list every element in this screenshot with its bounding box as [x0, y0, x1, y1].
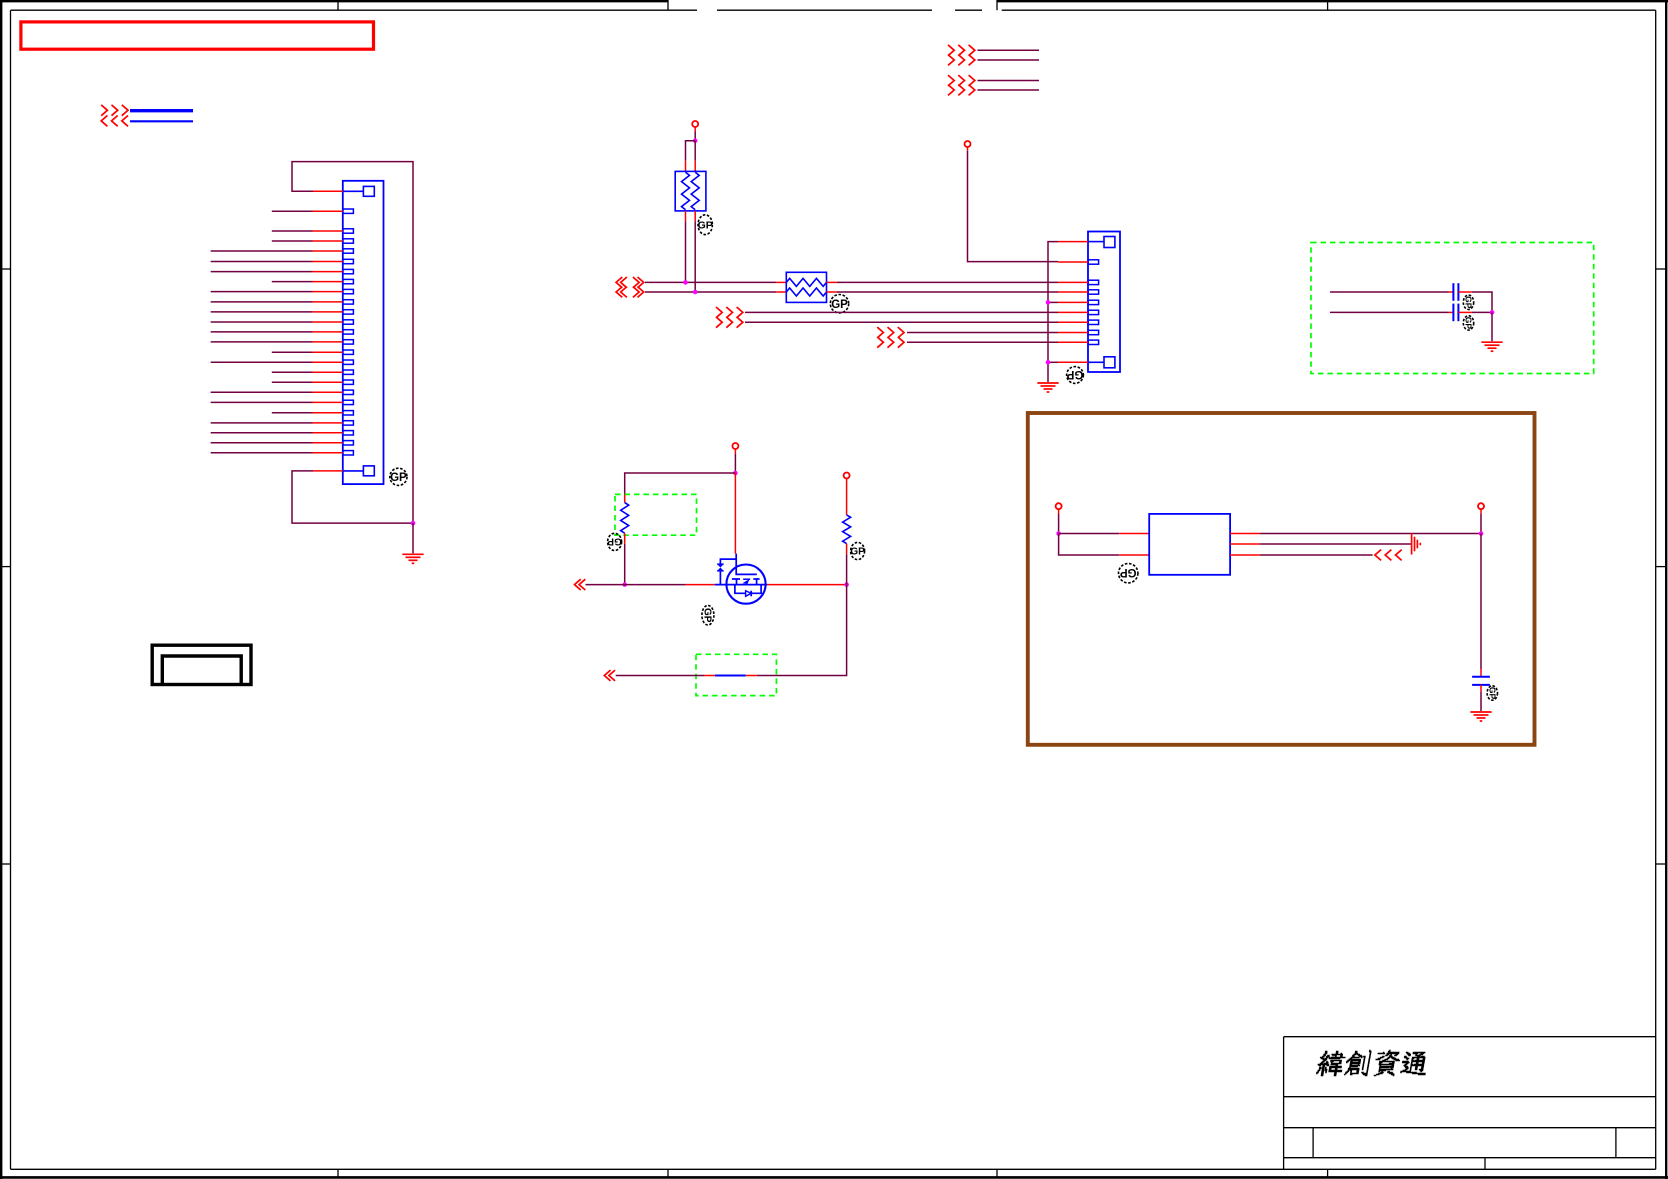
GP mark RP1 [698, 215, 713, 235]
off-page connector OP1 [101, 105, 128, 126]
pin stub J1 y=291.6 [343, 289, 354, 293]
chassis ground (right) [1412, 533, 1421, 554]
wire [1058, 509, 1060, 514]
wire [686, 141, 696, 161]
pin stub J1 y=392.3 [343, 390, 354, 394]
pin stub J1 y=311.9 [343, 310, 354, 314]
pin lead [313, 422, 343, 424]
svg-text:GP: GP [390, 472, 407, 484]
wire [1480, 514, 1482, 534]
pin stub J2 y=262.0 [1088, 260, 1099, 264]
off-page connector OP8 [604, 670, 615, 681]
wire [694, 141, 696, 161]
ground rail wire [1048, 242, 1058, 382]
pin lead [313, 250, 343, 252]
wire [1491, 312, 1493, 341]
pin lead [624, 494, 626, 502]
power terminal V1 [692, 121, 698, 127]
wire [1048, 361, 1058, 363]
wire [837, 291, 1058, 293]
capacitor C2 [1453, 304, 1458, 322]
wire [1059, 533, 1120, 535]
wire [211, 291, 313, 293]
wire [1058, 514, 1060, 534]
pin lead [1449, 311, 1454, 313]
pin lead [1449, 291, 1454, 293]
pin stub J1 y=301.9 [343, 300, 354, 304]
GP mark R1 [607, 533, 622, 550]
pin stub J1 y=211.2 [343, 209, 354, 213]
connector J2 [1088, 232, 1120, 373]
pin lead [313, 281, 343, 283]
wire [624, 544, 626, 585]
pin 26 lead [313, 470, 343, 472]
wire [211, 341, 313, 343]
ground [1037, 383, 1058, 392]
pin stub J1 y=402.4 [343, 400, 354, 404]
DNI box L1 [696, 654, 776, 695]
junction [683, 280, 688, 285]
pin lead [313, 311, 343, 313]
pin lead [313, 210, 343, 212]
wire (to lower branch) [757, 585, 847, 676]
wire [272, 240, 313, 242]
GP mark C3 [1487, 686, 1497, 700]
junction [411, 521, 416, 526]
pin lead [313, 371, 343, 373]
pin lead [313, 331, 343, 333]
pin stub J2 y=302.4 [1088, 300, 1099, 304]
wire [907, 341, 1058, 343]
pin lead [313, 381, 343, 383]
wire [734, 449, 736, 454]
wire [1480, 534, 1482, 670]
wire [211, 432, 313, 434]
wire [272, 351, 313, 353]
capacitor C1 [1453, 283, 1458, 301]
pin lead [313, 240, 343, 242]
pin stub J2 y=292.0 [1088, 290, 1099, 294]
wire [1048, 301, 1058, 303]
power terminal V2 [965, 141, 971, 147]
pin stub J2 y=332.5 [1088, 330, 1099, 334]
pin lead [313, 301, 343, 303]
pin lead [313, 412, 343, 414]
wire [978, 89, 1040, 91]
off-page connector OP5 [948, 45, 975, 66]
pin 1 lead [313, 190, 343, 192]
pin stub J1 y=382.2 [343, 380, 354, 384]
svg-text:GP: GP [1463, 317, 1473, 330]
title block [1284, 1037, 1656, 1170]
junction [844, 582, 849, 587]
GP mark R2 [850, 542, 865, 559]
off-page connector OP6 [948, 75, 975, 95]
pin stub J1 y=442.8 [343, 441, 354, 445]
wire (gate) [586, 584, 686, 586]
pin lead [776, 281, 786, 283]
pin stub J2 y=322.3 [1088, 320, 1099, 324]
GP mark C2 [1463, 316, 1473, 330]
ground [1481, 342, 1502, 351]
pin lead [1058, 332, 1088, 334]
pin 1 lead [1058, 241, 1088, 243]
resistor pack RP2 [786, 272, 826, 302]
pin stub J1 y=372.2 [343, 370, 354, 374]
wire [211, 261, 313, 263]
pin lead [624, 533, 626, 544]
pin stub J2 y=312.4 [1088, 310, 1099, 314]
resistor pack RP1 [675, 171, 706, 211]
wire (branch left) [625, 473, 736, 494]
svg-text:GP: GP [1487, 687, 1497, 700]
pin stub J1 y=412.8 [343, 411, 354, 415]
GP mark J1 [390, 468, 407, 485]
module U1 [1149, 514, 1230, 575]
GP mark J2 [1066, 367, 1083, 384]
pin lead [1458, 291, 1472, 293]
pin lead [827, 281, 838, 283]
junction [1046, 300, 1051, 305]
pin stub J1 y=251.0 [343, 249, 354, 253]
svg-text:GP: GP [1120, 566, 1137, 578]
pin stub J1 y=261.5 [343, 259, 354, 263]
pin lead [1058, 291, 1088, 293]
svg-text:GP: GP [831, 299, 848, 311]
pin lead [313, 452, 343, 454]
wire [272, 230, 313, 232]
svg-text:GP: GP [698, 219, 713, 231]
GP mark U1 [1119, 564, 1138, 583]
capacitor C3 [1472, 677, 1490, 685]
junction [693, 138, 698, 143]
pin lead [313, 230, 343, 232]
svg-text:GP: GP [1463, 296, 1473, 309]
off-page connector OP9 [1375, 550, 1402, 561]
pin lead [704, 675, 715, 677]
pin lead [313, 391, 343, 393]
power terminal V5 [1056, 503, 1062, 509]
pin lead [313, 341, 343, 343]
off-page connector OP2 [616, 277, 644, 297]
pin stub J2 y=282.4 [1088, 280, 1099, 284]
junction [1046, 360, 1051, 365]
power terminal V3 [732, 443, 738, 449]
pin lead [1058, 341, 1088, 343]
pin lead [1058, 321, 1088, 323]
pin lead [1058, 281, 1088, 283]
pin lead [313, 291, 343, 293]
bus segment [130, 109, 193, 112]
pin lead [1119, 533, 1149, 535]
wire [211, 442, 313, 444]
wire [272, 210, 313, 212]
wire [211, 361, 313, 363]
pin lead [313, 442, 343, 444]
junction [622, 582, 627, 587]
svg-text:GP: GP [701, 608, 712, 623]
pin stub J1 y=271.6 [343, 269, 354, 273]
wire [1472, 311, 1492, 313]
pin stub J1 y=352.2 [343, 350, 354, 354]
wire [907, 332, 1058, 334]
wire (bus1) [645, 281, 776, 283]
wire [694, 127, 696, 132]
wire [1059, 534, 1120, 556]
wire (pin1 to ground rail) [292, 162, 413, 523]
pin stub J1 y=452.8 [343, 451, 354, 455]
pin lead [694, 211, 696, 222]
wire [734, 454, 736, 473]
pin lead [313, 261, 343, 263]
pin lead [1230, 533, 1260, 535]
wire (drain riser) [734, 473, 736, 554]
junction [1056, 531, 1061, 536]
pin lead [685, 211, 687, 222]
wire [978, 49, 1040, 51]
off-page connector OP7 [575, 579, 586, 590]
ground [1470, 712, 1491, 721]
wire [1330, 291, 1449, 293]
wire [745, 311, 1058, 313]
power terminal V4 [844, 473, 850, 479]
DNI box R1 [615, 494, 697, 535]
wire (source) [767, 584, 847, 586]
wire [694, 221, 696, 292]
svg-text:GP: GP [607, 535, 622, 546]
wire [211, 452, 313, 454]
revision box [21, 22, 374, 49]
wire [616, 675, 704, 677]
resistor R2 [843, 515, 851, 544]
wire [1480, 509, 1482, 514]
wire (bus2) [645, 291, 776, 293]
pin stub J1 y=422.9 [343, 421, 354, 425]
pin lead [694, 161, 696, 172]
wire [967, 147, 969, 151]
pin stub J1 y=432.8 [343, 431, 354, 435]
wire [272, 381, 313, 383]
wire [837, 281, 1058, 283]
off-page connector OP4 [877, 327, 904, 348]
pin stub J1 y=241.0 [343, 239, 354, 243]
pin lead [1119, 554, 1149, 556]
GP mark Q1 [701, 605, 714, 625]
wire [211, 250, 313, 252]
pin lead [1230, 543, 1260, 545]
wire [272, 412, 313, 414]
junction [1479, 531, 1484, 536]
pin lead [313, 401, 343, 403]
wire [745, 321, 1058, 323]
wire [1260, 543, 1411, 545]
pin lead [846, 544, 848, 555]
pin lead [313, 432, 343, 434]
wire [1472, 292, 1492, 312]
wire [1260, 554, 1373, 556]
pin lead [313, 351, 343, 353]
pin stub J1 y=341.9 [343, 340, 354, 344]
wire [211, 422, 313, 424]
wire [211, 301, 313, 303]
svg-text:GP: GP [850, 547, 865, 558]
pin lead [1480, 669, 1482, 677]
junction [693, 290, 698, 295]
pin lead [1480, 685, 1482, 692]
GP mark RP2 [830, 295, 848, 313]
pin stub J1 y=231.0 [343, 229, 354, 233]
wire [1260, 533, 1481, 535]
transistor Q1 (power MOSFET) [715, 554, 767, 604]
pin stub J1 y=362.2 [343, 360, 354, 364]
wire [130, 120, 193, 122]
junction [733, 471, 738, 476]
ground [402, 554, 423, 563]
wire [694, 132, 696, 141]
wire [211, 321, 313, 323]
wire [272, 371, 313, 373]
wire [1480, 692, 1482, 711]
wire [211, 391, 313, 393]
pin lead [746, 675, 757, 677]
wire [846, 554, 848, 584]
pin lead [1058, 311, 1088, 313]
title text (company logotype) [1316, 1050, 1425, 1076]
wire stub to ground [412, 523, 414, 553]
wire [211, 331, 313, 333]
wire (pin26 to ground rail) [292, 471, 413, 523]
wire [968, 151, 1059, 262]
wire [1330, 311, 1449, 313]
pin stub J1 y=322.0 [343, 320, 354, 324]
wire [685, 221, 687, 282]
junction [1490, 310, 1495, 315]
bracket symbol [152, 645, 251, 684]
wire [978, 80, 1040, 82]
pin lead [846, 479, 848, 515]
connector J1 [343, 181, 384, 484]
pin 10 lead [1058, 361, 1088, 363]
pin lead [685, 161, 687, 172]
pin lead [313, 361, 343, 363]
off-page connector OP3 [716, 307, 743, 328]
DNI group box [1311, 243, 1594, 374]
pin stub J1 y=331.9 [343, 330, 354, 334]
pin lead [313, 321, 343, 323]
wire [211, 311, 313, 313]
wire [686, 584, 715, 586]
pin stub J2 y=342.3 [1088, 340, 1099, 344]
pin stub J1 y=281.6 [343, 279, 354, 283]
pin lead [1058, 261, 1088, 263]
GP mark C1 [1463, 295, 1473, 309]
power terminal V6 [1478, 503, 1484, 509]
resistor R1 [621, 503, 629, 534]
pin lead [313, 271, 343, 273]
wire [211, 401, 313, 403]
group box (brown) [1028, 413, 1535, 745]
pin lead [1230, 554, 1260, 556]
wire [211, 271, 313, 273]
pin lead [1058, 301, 1088, 303]
inductor/jumper L1 [715, 675, 746, 677]
wire [978, 59, 1040, 61]
pin lead [1458, 311, 1472, 313]
wire [272, 281, 313, 283]
svg-text:GP: GP [1066, 368, 1083, 380]
